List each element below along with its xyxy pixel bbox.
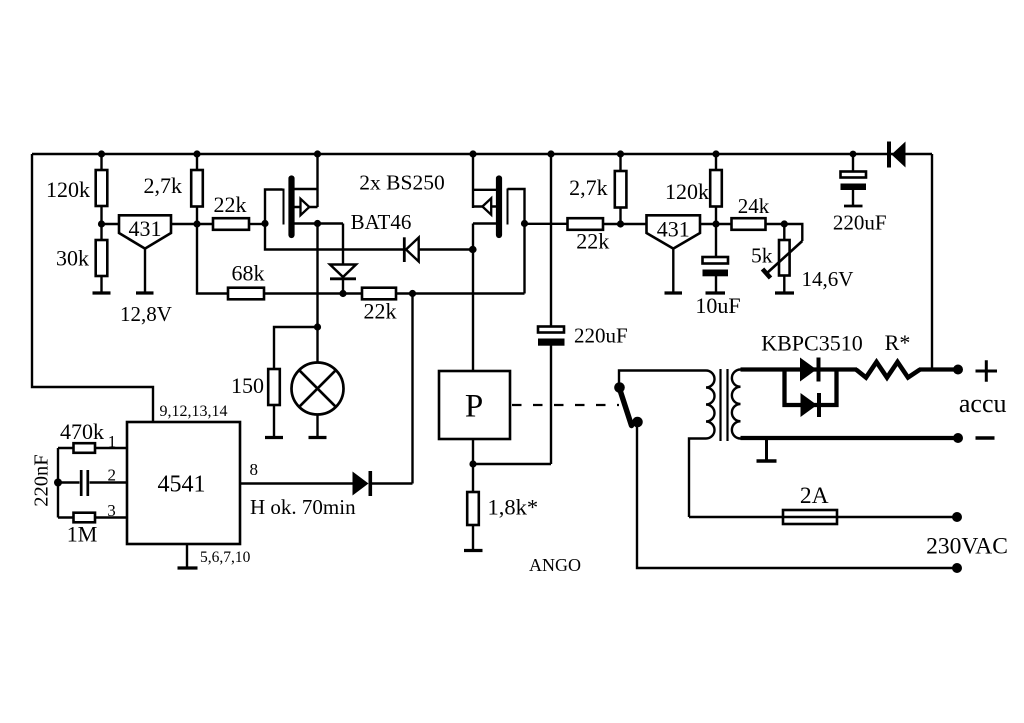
svg-text:431: 431 [129,216,162,241]
op-amp shunt reference U2 431 right [647,215,701,292]
wire accu minus thick [741,433,995,443]
svg-text:1: 1 [108,432,117,451]
svg-text:BAT46: BAT46 [351,210,412,234]
svg-text:1M: 1M [67,522,98,547]
svg-text:220uF: 220uF [574,323,628,347]
resistor 68k [228,261,265,300]
lamp [292,363,344,438]
svg-text:120k: 120k [46,177,90,202]
resistor 22k right [568,218,647,253]
fuse 2A [689,483,962,524]
svg-text:12,8V: 12,8V [120,302,172,326]
ground on secondary minus [757,438,777,461]
pin 3 row resistor 1M [58,501,127,547]
transformer T1 secondary [732,370,741,439]
pin 8 output row [240,460,413,519]
resistor 22k gate left [213,192,265,230]
wire mains bottom [637,421,962,573]
transistor Q1 BS250 left [261,154,343,235]
resistor 120k left [46,154,107,224]
wire accu plus thick [741,367,959,371]
ground for U1 [136,291,154,294]
svg-text:1,8k*: 1,8k* [488,495,539,520]
svg-text:2: 2 [108,466,117,485]
resistor 2.7k right [569,154,626,224]
resistor 24k [732,194,788,230]
svg-text:4541: 4541 [158,472,206,498]
wire P down to 1.8k [469,439,551,492]
ground for 10uF [706,291,726,294]
label 2x BS250 [359,170,444,194]
svg-text:P: P [465,389,483,425]
svg-text:8: 8 [250,460,259,479]
resistor 2.7k left [144,154,203,224]
resistor 22k drain row [362,288,525,324]
node divider junction [98,220,119,227]
ground for lamp [309,436,327,439]
ground bar for 220uF [844,205,863,208]
transformer core [721,369,728,441]
wire U2 output row [700,220,732,227]
svg-text:24k: 24k [738,194,770,218]
svg-text:220nF: 220nF [31,454,53,506]
wire left border [32,154,153,422]
svg-text:14,6V: 14,6V [802,267,854,291]
node accu plus terminal [953,360,1007,418]
wire top supply rail [32,153,932,155]
resistor 150 [231,327,318,437]
wire Q2 drain down to P [469,224,476,372]
wire 68k row up to Q2 gate [523,224,525,294]
label ANGO [529,555,581,575]
wire BAT46 row [265,224,473,250]
svg-text:30k: 30k [56,246,89,271]
capacitor 220uF middle [538,154,628,464]
wire right border down to accu plus [931,154,933,370]
svg-text:22k: 22k [576,229,609,254]
node 12.8V label [120,302,172,326]
diode D4 on pin 8 [353,471,371,496]
svg-text:150: 150 [231,373,264,398]
transistor Q2 BS250 right [473,154,528,235]
svg-text:2A: 2A [800,483,829,509]
capacitor 220uF top right [833,154,887,235]
box P pressure switch [439,371,510,439]
svg-text:470k: 470k [60,419,104,444]
ground for 30k divider [93,291,111,294]
ground for 1.8k [464,549,483,552]
svg-text:5k: 5k [751,244,773,268]
svg-text:10uF: 10uF [695,293,740,318]
svg-text:230VAC: 230VAC [926,534,1008,560]
resistor R* zigzag [856,330,920,378]
wire RC left rail [54,448,62,518]
dashed mechanical link [512,404,619,406]
svg-text:2x BS250: 2x BS250 [359,170,444,194]
svg-text:R*: R* [885,330,911,355]
pin 1 row resistor 470k [58,419,127,453]
svg-text:KBPC3510: KBPC3510 [761,331,862,356]
transformer T1 primary [689,371,715,518]
ground for 5k [775,291,794,294]
diode D3 top right [889,142,906,168]
label 230VAC [926,534,1008,560]
potentiometer 5k [751,224,853,293]
svg-text:accu: accu [959,389,1007,418]
ground for 4541 [178,544,198,568]
pin 2 row capacitor 220nF [31,454,128,506]
svg-text:22k: 22k [214,192,247,217]
svg-text:120k: 120k [665,179,709,204]
capacitor 10uF [695,224,740,318]
svg-text:2,7k: 2,7k [144,173,183,198]
wire Q2 gate row to 22k [525,223,568,225]
svg-text:22k: 22k [364,299,397,324]
node top rail junction dots [98,150,856,157]
svg-text:3: 3 [107,501,116,520]
wire 68k feedback row [197,224,362,294]
svg-text:9,12,13,14: 9,12,13,14 [160,403,228,420]
wire U1 output row [171,220,213,227]
resistor 120k right [665,154,722,224]
diode D2 at Q1 drain [330,224,356,298]
svg-text:431: 431 [657,217,690,242]
wire Q1 drain down to lamp [314,224,321,363]
svg-text:H ok. 70min: H ok. 70min [250,495,356,519]
svg-text:5,6,7,10: 5,6,7,10 [200,549,251,566]
ground for 150 [265,436,283,439]
svg-text:68k: 68k [232,261,265,286]
op-amp shunt reference U1 431 left [119,215,171,292]
IC 4541 [127,403,251,566]
diode D1 BAT46 [351,210,476,262]
ground for U2 [665,291,683,294]
svg-text:2,7k: 2,7k [569,175,608,200]
resistor 1.8k [467,492,538,550]
svg-text:ANGO: ANGO [529,555,581,575]
resistor 30k [56,224,107,293]
svg-text:220uF: 220uF [833,211,887,235]
switch S1 [614,371,706,428]
bridge rectifier KBPC3510 [761,331,862,417]
wire down to pin8 diode [411,294,413,484]
